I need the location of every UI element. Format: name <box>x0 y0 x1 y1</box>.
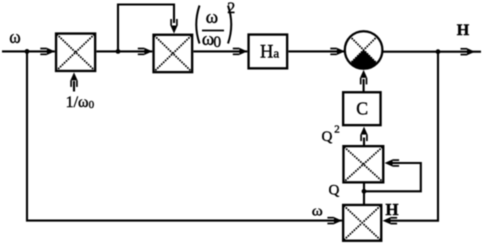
svg-text:ω: ω <box>312 204 323 220</box>
svg-text:Ha: Ha <box>260 42 279 62</box>
svg-text:2: 2 <box>227 0 235 17</box>
svg-text:Q: Q <box>322 129 333 145</box>
svg-text:2: 2 <box>334 124 340 136</box>
svg-text:Q: Q <box>329 183 340 199</box>
svg-text:H: H <box>457 22 470 39</box>
svg-text:H: H <box>385 200 398 219</box>
svg-text:1/ω0: 1/ω0 <box>66 94 95 111</box>
svg-text:ω: ω <box>9 27 20 48</box>
svg-text:C: C <box>356 98 368 118</box>
svg-text:ω: ω <box>206 7 219 28</box>
svg-text:0: 0 <box>213 34 221 51</box>
